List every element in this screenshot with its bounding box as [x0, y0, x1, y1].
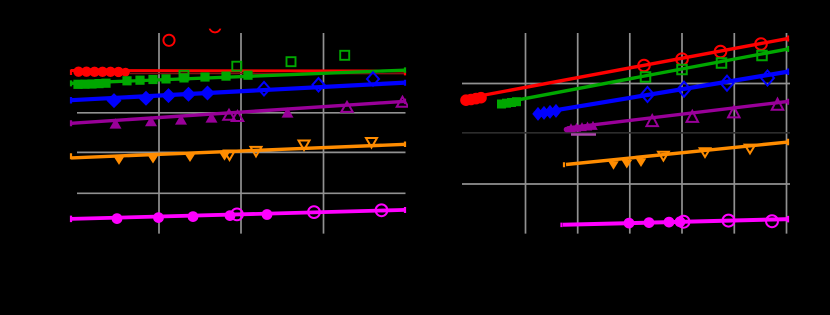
- right blue open diamonds: [641, 71, 774, 103]
- left orange open down-triangle 3: [299, 140, 310, 150]
- left blue open diamond 1: [258, 82, 270, 96]
- right panel horizontal gridline y=83.5: [462, 83, 790, 85]
- left green fit line: [71, 70, 406, 83]
- left orange end cap right: [404, 142, 406, 148]
- right magenta start dash: [560, 223, 562, 228]
- right panel vertical gridline x=577.7: [577, 33, 579, 234]
- left orange open down-triangle 4: [366, 138, 377, 148]
- left purple filled triangles: [110, 107, 294, 128]
- right green end cap: [787, 46, 789, 52]
- left magenta open circle 2: [308, 206, 320, 218]
- right panel vertical gridline x=786.5: [786, 33, 788, 234]
- left panel horizontal gridline y=193.3: [77, 192, 406, 194]
- left blue open diamond 3: [367, 72, 379, 86]
- left purple end tick: [70, 120, 72, 126]
- left orange open down-triangle 2: [251, 147, 262, 157]
- left purple open triangle 4: [397, 97, 409, 107]
- left magenta end cap right: [404, 207, 406, 213]
- right panel vertical gridline x=734.3: [733, 33, 735, 234]
- right panel vertical gridline x=525.5: [525, 33, 527, 234]
- left blue filled diamonds: [107, 86, 216, 109]
- left panel vertical gridline x=241: [240, 33, 242, 234]
- right panel vertical gridline x=629.8: [629, 33, 631, 234]
- left red filled circles: [73, 67, 130, 78]
- left purple open triangle 1: [223, 110, 235, 120]
- right green open squares: [641, 51, 767, 82]
- right green fit line: [498, 49, 789, 104]
- right orange open down-triangles: [658, 145, 755, 161]
- left orange open down-triangle 1: [224, 151, 235, 161]
- right magenta fit line: [563, 219, 789, 225]
- left green end cap right: [404, 67, 406, 73]
- left magenta end tick: [70, 216, 72, 223]
- left green filled squares: [73, 71, 252, 89]
- right red open circles: [638, 38, 767, 71]
- right red end cap: [787, 36, 789, 42]
- left blue end tick: [70, 97, 72, 104]
- left purple fit line: [71, 101, 406, 123]
- right purple filled triangle cluster: [564, 121, 598, 132]
- right panel dark half-decade gridline y=132.8: [462, 132, 790, 134]
- left panel horizontal gridline y=152.4: [77, 151, 406, 153]
- left panel horizontal gridline y=112.8: [77, 112, 406, 114]
- right red fit line: [463, 38, 789, 99]
- left magenta open circle 1: [231, 209, 243, 221]
- right panel vertical gridline x=682: [681, 33, 683, 234]
- left red open circle 1: [163, 35, 174, 46]
- right purple light dash below cluster: [571, 133, 596, 136]
- left green open square 1: [180, 71, 189, 80]
- right blue filled diamond cluster: [532, 104, 562, 121]
- right orange fit line: [566, 142, 789, 165]
- left red end tick: [70, 69, 72, 75]
- left panel dark half-decade gridline y=73.4: [130, 72, 404, 74]
- left purple end cap right: [404, 99, 406, 105]
- left purple open triangle 2: [232, 111, 244, 121]
- left orange end tick: [70, 153, 72, 159]
- right orange start dash: [563, 162, 565, 167]
- left orange fit line: [71, 144, 406, 158]
- left purple open triangle 3: [341, 102, 353, 112]
- right panel horizontal gridline y=184: [462, 183, 790, 185]
- left red open circle 2 (clipped at top): [209, 21, 220, 32]
- right blue fit line: [534, 72, 789, 114]
- right orange filled down-triangles: [608, 159, 646, 170]
- left blue end cap right: [404, 80, 406, 86]
- right orange end cap: [787, 139, 789, 146]
- right green filled square cluster: [497, 97, 521, 108]
- right magenta filled circles: [624, 216, 686, 228]
- right purple open triangles: [646, 99, 783, 126]
- right red filled circle cluster: [460, 92, 487, 106]
- left magenta fit line: [71, 210, 406, 219]
- left blue fit line: [71, 83, 406, 101]
- left panel vertical gridline x=159: [158, 33, 160, 234]
- left red end cap right: [404, 71, 406, 75]
- right magenta end cap: [787, 216, 789, 223]
- left red fit line: [71, 69, 406, 72]
- left magenta open circle 3: [376, 204, 388, 216]
- left orange filled down-triangles: [113, 151, 231, 165]
- left green end tick: [70, 80, 72, 86]
- right blue end cap: [787, 68, 789, 75]
- right magenta open circles: [678, 215, 779, 228]
- left panel vertical gridline x=323.5: [323, 33, 325, 234]
- left green open square 4: [340, 51, 349, 60]
- right purple end cap: [787, 99, 789, 105]
- left blue open diamond 2: [313, 78, 325, 92]
- left green open square 3: [287, 57, 296, 66]
- left green open square 2: [232, 62, 241, 71]
- left magenta filled circles: [112, 209, 273, 224]
- right purple fit line: [567, 101, 789, 128]
